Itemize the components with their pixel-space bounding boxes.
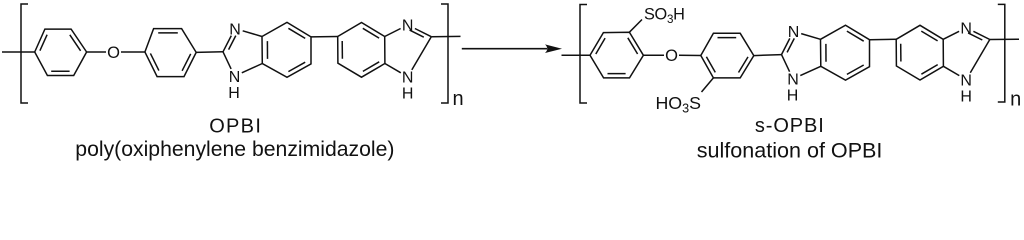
svg-text:N: N bbox=[960, 21, 972, 38]
svg-text:N: N bbox=[788, 24, 800, 41]
svg-text:n: n bbox=[1010, 88, 1021, 110]
svg-text:sulfonation of OPBI: sulfonation of OPBI bbox=[697, 138, 883, 163]
svg-text:SO3H: SO3H bbox=[644, 6, 685, 27]
svg-text:poly(oxiphenylene benzimidazol: poly(oxiphenylene benzimidazole) bbox=[75, 138, 394, 161]
svg-text:n: n bbox=[452, 88, 463, 110]
svg-text:O: O bbox=[665, 47, 678, 65]
svg-text:H: H bbox=[960, 88, 972, 105]
svg-text:N: N bbox=[229, 69, 241, 86]
svg-text:H: H bbox=[402, 86, 414, 103]
svg-text:HO3S: HO3S bbox=[655, 93, 701, 116]
svg-text:N: N bbox=[229, 21, 241, 38]
svg-text:N: N bbox=[787, 72, 799, 89]
svg-text:N: N bbox=[402, 18, 414, 35]
svg-text:OPBI: OPBI bbox=[209, 115, 262, 137]
svg-text:N: N bbox=[402, 70, 414, 87]
svg-text:s-OPBI: s-OPBI bbox=[755, 115, 825, 137]
svg-text:H: H bbox=[228, 85, 240, 102]
svg-text:O: O bbox=[107, 44, 120, 62]
svg-text:H: H bbox=[787, 88, 799, 105]
svg-text:N: N bbox=[960, 72, 972, 89]
